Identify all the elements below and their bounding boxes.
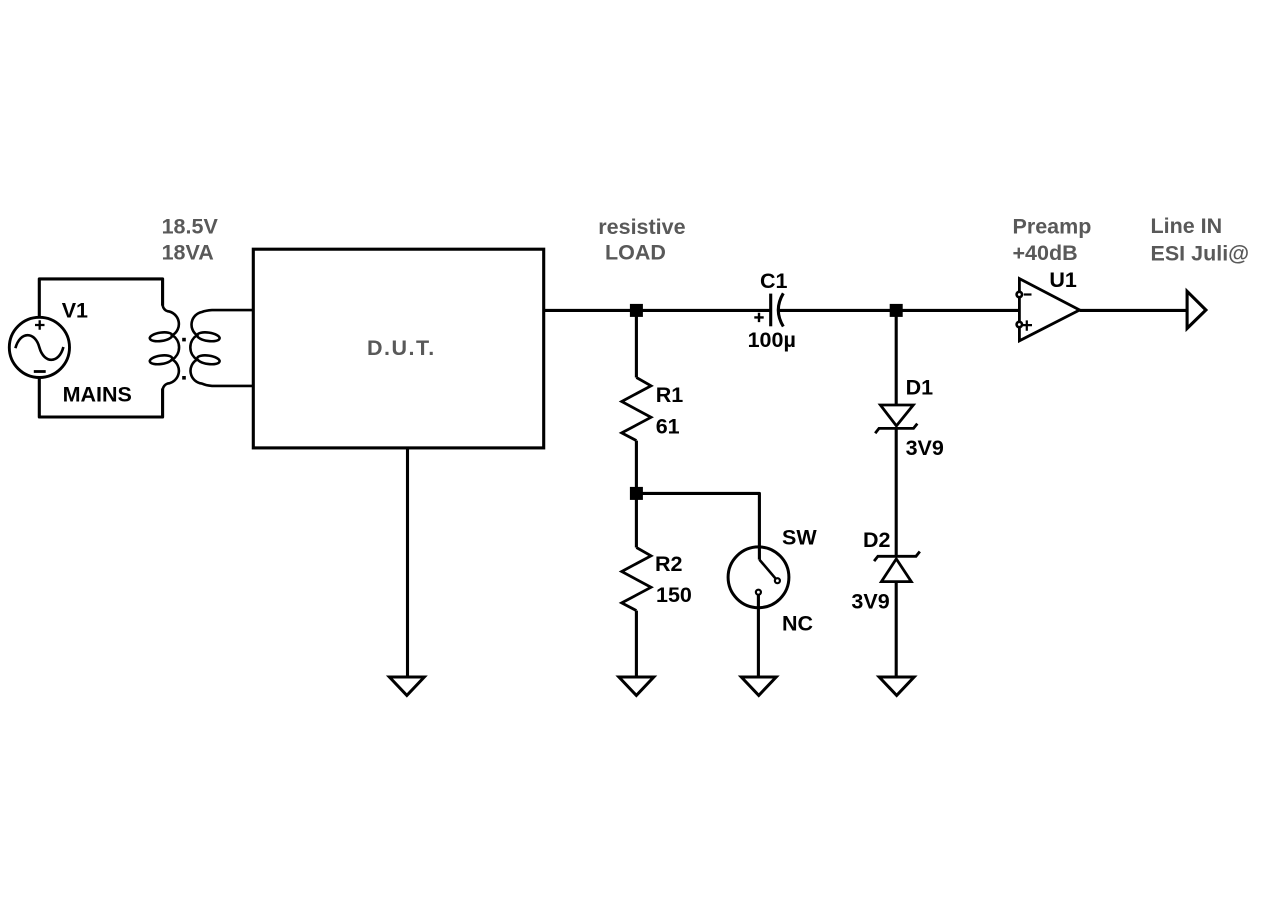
transformer secondary loop 2: [197, 354, 221, 365]
wire switch to ground: [757, 592, 760, 677]
svg-text:ESI Juli@: ESI Juli@: [1151, 241, 1250, 265]
capacitor C1 curved plate: [778, 293, 783, 326]
svg-text:150: 150: [656, 583, 692, 607]
capacitor C1 left plate: [769, 294, 772, 327]
output port arrow: [1187, 291, 1206, 328]
ground under DUT: [389, 677, 424, 695]
node junction R1-R2-SW: [630, 487, 643, 500]
wire D1 to D2: [895, 428, 898, 556]
D.U.T. box: [253, 249, 543, 448]
svg-text:61: 61: [656, 415, 680, 439]
switch lever: [759, 560, 777, 581]
svg-text:C1: C1: [760, 269, 788, 293]
wire V1 bottom to transformer primary: [39, 378, 162, 417]
wire R2 to ground: [635, 611, 638, 677]
svg-text:MAINS: MAINS: [63, 382, 132, 406]
svg-text:R1: R1: [656, 383, 684, 407]
switch SW circle: [728, 547, 789, 608]
node junction at D1 top: [890, 304, 903, 317]
svg-text:U1: U1: [1049, 268, 1077, 292]
svg-text:3V9: 3V9: [851, 589, 889, 613]
svg-text:18VA: 18VA: [162, 240, 214, 264]
svg-text:V1: V1: [62, 299, 88, 323]
switch contact right: [775, 578, 780, 583]
svg-text:resistive: resistive: [598, 215, 685, 239]
svg-text:+40dB: +40dB: [1013, 241, 1078, 265]
zener diode D2 bar with tails: [874, 552, 920, 562]
svg-text:D.U.T.: D.U.T.: [367, 336, 436, 360]
svg-text:D2: D2: [863, 528, 891, 552]
svg-text:NC: NC: [782, 612, 813, 636]
op-amp U1 inverting pin: [1017, 292, 1022, 297]
switch contact bottom: [756, 590, 761, 595]
wire V1 top to transformer primary: [39, 279, 162, 317]
transformer core dot bottom: [182, 376, 186, 380]
svg-text:D1: D1: [906, 376, 934, 400]
zener diode D2 triangle: [881, 559, 911, 582]
V1 plus sign: [35, 320, 45, 329]
wire node 2 to switch: [636, 493, 759, 559]
svg-text:SW: SW: [782, 525, 817, 549]
wire node to D1: [895, 310, 898, 404]
svg-text:LOAD: LOAD: [605, 241, 666, 265]
transformer primary winding: [163, 279, 179, 417]
transformer secondary loop 1: [197, 331, 221, 342]
zener diode D1 triangle: [880, 405, 913, 426]
svg-text:Line IN: Line IN: [1151, 214, 1223, 238]
wire C1 to opamp: [780, 309, 1020, 312]
capacitor C1 plus sign: [754, 313, 763, 322]
resistor R1: [622, 378, 651, 441]
ground under R2: [619, 677, 654, 695]
V1 sine wave: [15, 335, 63, 360]
op-amp U1 minus sign: [1024, 293, 1032, 295]
wire DUT bottom to ground: [406, 448, 409, 677]
transformer secondary winding: [190, 310, 253, 386]
V1 minus sign: [34, 370, 46, 373]
svg-text:Preamp: Preamp: [1013, 215, 1092, 239]
wire opamp output to port: [1080, 309, 1188, 312]
wire R1 to node 2: [635, 441, 638, 548]
wire D2 to ground: [895, 582, 898, 677]
svg-text:3V9: 3V9: [906, 436, 944, 460]
ground under switch: [741, 677, 776, 695]
transformer primary loop 2: [149, 354, 173, 365]
svg-text:R2: R2: [655, 552, 683, 576]
voltage source V1 circle: [9, 317, 69, 377]
node junction at R1 top: [630, 304, 643, 317]
resistor R2: [622, 548, 651, 611]
op-amp U1 plus sign: [1023, 320, 1032, 330]
op-amp U1 non-inverting pin: [1017, 322, 1022, 327]
transformer primary loop 1: [149, 331, 173, 342]
ground under D2: [879, 677, 914, 695]
wire node to R1: [635, 310, 638, 377]
zener diode D1 bar with tails: [875, 424, 917, 434]
op-amp U1 triangle: [1019, 279, 1079, 341]
svg-text:18.5V: 18.5V: [162, 215, 219, 239]
wire main rail DUT to C1: [544, 309, 771, 312]
transformer core dot top: [182, 338, 186, 342]
svg-text:100µ: 100µ: [748, 328, 796, 352]
